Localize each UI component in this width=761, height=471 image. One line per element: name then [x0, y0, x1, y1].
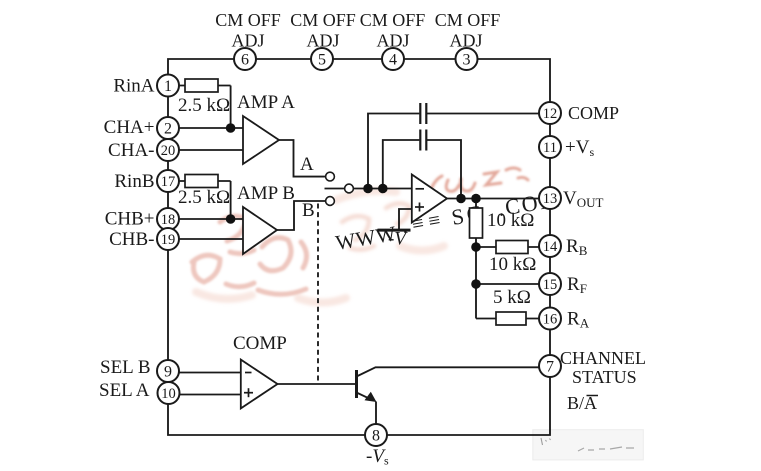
svg-text:CHA-: CHA- — [108, 140, 154, 161]
svg-text:A: A — [300, 154, 314, 175]
svg-text:CM OFF: CM OFF — [435, 10, 501, 30]
svg-text:11: 11 — [543, 140, 557, 156]
svg-text:12: 12 — [543, 106, 558, 122]
svg-text:ADJ: ADJ — [306, 31, 339, 51]
svg-text:STATUS: STATUS — [572, 367, 637, 387]
svg-text:CM OFF: CM OFF — [290, 10, 356, 30]
svg-text:SEL B: SEL B — [100, 357, 151, 378]
svg-text:CHA+: CHA+ — [104, 117, 155, 138]
svg-text:ADJ: ADJ — [231, 31, 264, 51]
svg-text:CHB-: CHB- — [109, 229, 154, 250]
svg-text:AMP B: AMP B — [237, 183, 295, 204]
svg-text:8: 8 — [372, 427, 380, 444]
svg-text:1: 1 — [164, 78, 172, 95]
svg-text:-V: -V — [388, 229, 408, 250]
svg-text:18: 18 — [161, 212, 176, 228]
svg-text:10: 10 — [161, 386, 176, 402]
svg-text:CM OFF: CM OFF — [215, 10, 281, 30]
svg-text:13: 13 — [543, 191, 558, 207]
svg-text:7: 7 — [546, 358, 554, 375]
svg-text:6: 6 — [241, 51, 249, 68]
svg-text:4: 4 — [389, 51, 397, 68]
svg-text:ADJ: ADJ — [376, 31, 409, 51]
svg-text:3: 3 — [463, 51, 471, 68]
svg-text:COMP: COMP — [568, 103, 619, 123]
svg-text:16: 16 — [543, 311, 558, 327]
svg-text:20: 20 — [161, 143, 176, 159]
svg-text:9: 9 — [164, 364, 172, 381]
svg-text:17: 17 — [161, 174, 176, 190]
svg-text:10 kΩ: 10 kΩ — [487, 210, 534, 231]
svg-text:RinB: RinB — [114, 171, 154, 192]
svg-text:CHANNEL: CHANNEL — [560, 348, 646, 368]
svg-text:CHB+: CHB+ — [105, 209, 155, 230]
svg-text:SEL A: SEL A — [99, 380, 150, 401]
svg-text:14: 14 — [543, 239, 558, 255]
svg-text:2: 2 — [164, 120, 172, 137]
svg-text:15: 15 — [543, 277, 558, 293]
svg-text:5: 5 — [318, 51, 326, 68]
svg-text:RinA: RinA — [113, 76, 154, 97]
svg-text:AMP A: AMP A — [237, 92, 295, 113]
svg-text:COMP: COMP — [233, 333, 287, 354]
svg-text:19: 19 — [161, 232, 176, 248]
svg-text:5 kΩ: 5 kΩ — [493, 287, 531, 308]
svg-text:2.5 kΩ: 2.5 kΩ — [178, 187, 230, 208]
svg-text:10 kΩ: 10 kΩ — [489, 254, 536, 275]
svg-text:2.5 kΩ: 2.5 kΩ — [178, 95, 230, 116]
svg-text:CM OFF: CM OFF — [360, 10, 426, 30]
svg-text:B: B — [302, 200, 315, 221]
svg-text:ADJ: ADJ — [449, 31, 482, 51]
